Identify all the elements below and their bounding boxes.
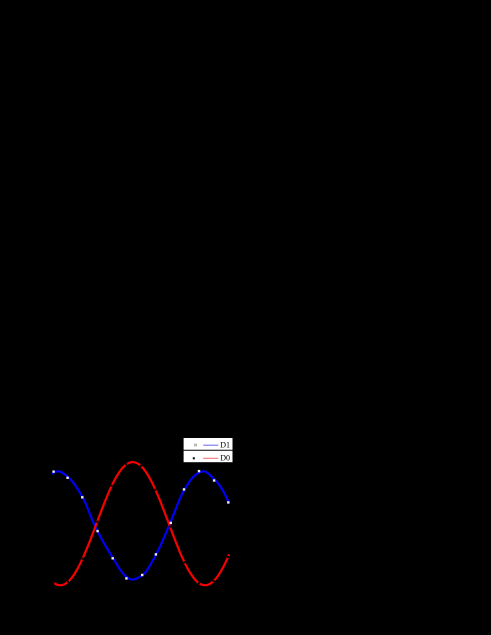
svg-text:D1: D1 <box>220 440 230 449</box>
svg-text:D0: D0 <box>220 454 230 463</box>
